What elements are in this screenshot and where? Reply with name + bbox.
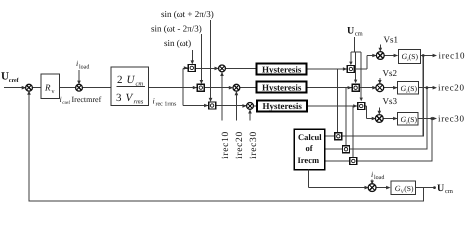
svg-text:load: load [374,174,384,181]
svg-text:rms: rms [134,99,144,106]
svg-text:U: U [347,26,354,37]
svg-text:(S): (S) [408,115,418,124]
svg-text:U: U [437,183,444,194]
svg-text:rec 1rms: rec 1rms [156,102,177,108]
svg-text:i: i [76,59,78,68]
svg-text:irec20: irec20 [438,83,465,93]
svg-text:Irectmref: Irectmref [72,95,102,104]
svg-text:i: i [153,97,155,106]
svg-text:(S): (S) [408,84,418,93]
svg-text:load: load [79,64,89,71]
svg-text:i: i [371,170,373,179]
svg-text:irec30: irec30 [438,114,465,124]
svg-text:cref: cref [9,77,20,84]
svg-text:sin (ωt + 2π/3): sin (ωt + 2π/3) [161,9,214,19]
svg-text:(S): (S) [409,52,419,61]
svg-text:Hysteresis: Hysteresis [263,101,303,111]
svg-text:irec10: irec10 [221,131,231,159]
svg-text:cm: cm [355,31,363,38]
svg-text:v: v [52,89,55,95]
svg-text:irec30: irec30 [249,131,259,159]
svg-text:U: U [127,74,136,86]
svg-text:sin (ωt): sin (ωt) [164,38,191,48]
svg-text:Irecm: Irecm [298,155,320,165]
svg-text:irec20: irec20 [235,131,245,159]
svg-text:cref: cref [62,100,70,106]
svg-text:Vs1: Vs1 [384,35,399,45]
svg-text:Vs3: Vs3 [383,96,398,106]
svg-text:Calcul: Calcul [298,132,322,142]
svg-text:R: R [44,83,51,93]
svg-text:sin (ωt - 2π/3): sin (ωt - 2π/3) [151,24,202,34]
svg-text:of: of [306,143,313,153]
svg-text:2: 2 [117,74,123,86]
svg-text:3: 3 [116,92,122,104]
svg-text:irec10: irec10 [439,51,466,61]
svg-text:(S): (S) [404,184,414,193]
svg-text:U: U [1,71,9,83]
svg-text:Hysteresis: Hysteresis [262,64,302,74]
svg-text:Vs2: Vs2 [383,68,398,78]
svg-text:Hysteresis: Hysteresis [262,83,302,93]
svg-text:cm: cm [445,188,453,195]
